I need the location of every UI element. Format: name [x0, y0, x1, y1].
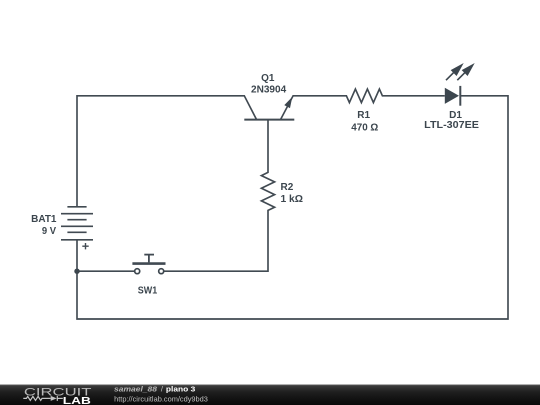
svg-text:R1: R1	[357, 110, 370, 121]
svg-text:LAB: LAB	[63, 396, 91, 405]
svg-text:Q1: Q1	[261, 73, 275, 84]
svg-text:LTL-307EE: LTL-307EE	[424, 120, 479, 131]
svg-text:2N3904: 2N3904	[251, 85, 287, 96]
svg-text:BAT1: BAT1	[31, 214, 57, 225]
svg-text:470 Ω: 470 Ω	[351, 122, 378, 133]
svg-text:plano 3: plano 3	[166, 385, 195, 394]
svg-text:samael_88: samael_88	[114, 384, 158, 393]
svg-text:http://circuitlab.com/cdy9bd3: http://circuitlab.com/cdy9bd3	[114, 394, 208, 403]
svg-text:R2: R2	[281, 182, 294, 193]
svg-text:9 V: 9 V	[42, 226, 57, 237]
svg-text:1 kΩ: 1 kΩ	[281, 194, 304, 205]
svg-text:SW1: SW1	[138, 286, 158, 297]
